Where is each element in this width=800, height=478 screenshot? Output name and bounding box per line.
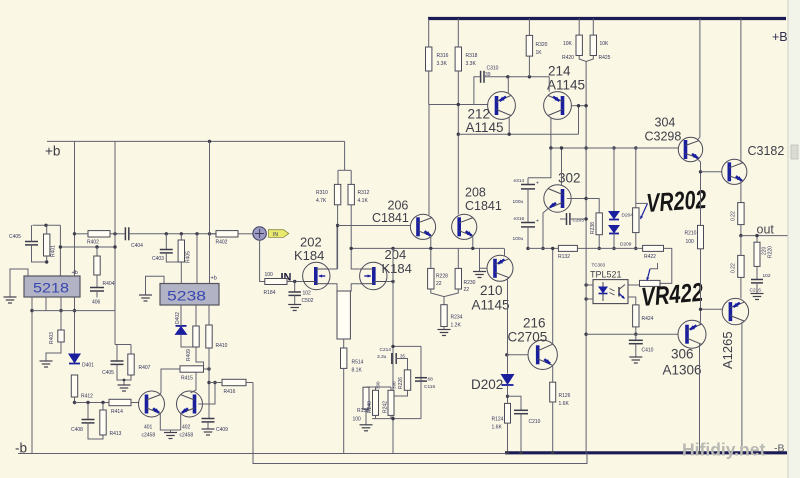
svg-text:R228: R228	[436, 274, 448, 280]
wire R422 to VR422	[660, 248, 672, 283]
svg-text:R403: R403	[49, 332, 55, 344]
svg-text:TC303: TC303	[592, 263, 606, 268]
wire R238 top	[586, 199, 599, 213]
svg-text:R242: R242	[383, 401, 389, 413]
svg-text:VR202: VR202	[645, 184, 707, 218]
wire opto pin1	[586, 284, 593, 286]
node pin4 bus	[73, 309, 76, 312]
svg-text:304: 304	[655, 116, 676, 130]
node x115 top line	[113, 232, 116, 235]
resistor R414	[109, 399, 131, 405]
wire C210 branch	[508, 396, 522, 410]
svg-text:R220: R220	[768, 246, 774, 258]
svg-text:R210: R210	[685, 231, 697, 237]
node 306 rail	[698, 451, 701, 454]
node 204 drain tap	[350, 247, 353, 250]
resistor R0.22b	[738, 255, 744, 277]
ground R234	[438, 330, 451, 336]
wire vr202 drop	[635, 148, 637, 208]
svg-text:R124: R124	[492, 417, 504, 423]
wire 302 base	[567, 198, 586, 200]
svg-text:C116: C116	[424, 384, 435, 390]
svg-text:C3298: C3298	[645, 130, 682, 144]
resistor R420	[576, 35, 582, 55]
wire R320 bottom	[528, 56, 530, 77]
resistor R405	[178, 240, 184, 262]
resistor R514	[341, 348, 347, 368]
node pin3 bus	[59, 309, 62, 312]
node A1265 rail	[740, 451, 743, 454]
potentiometer VR422 wiper	[647, 269, 650, 281]
resistor R316	[426, 47, 432, 71]
wire C502 top lead	[294, 282, 296, 293]
connector IN flag	[269, 230, 289, 238]
wire R240 top lead	[375, 387, 377, 390]
resistor R226	[404, 370, 410, 390]
wire R402 to C404	[110, 233, 125, 235]
wire out to 0.22b	[740, 236, 742, 256]
wire R420 top	[578, 19, 580, 36]
wire R220 to C216	[756, 266, 758, 279]
node bias y148	[584, 146, 587, 149]
svg-text:R238: R238	[590, 222, 596, 234]
wire C203 left lead	[560, 218, 567, 220]
wire bias line y148	[551, 147, 677, 149]
wire 210 emitter chain	[507, 279, 509, 374]
node vr202 bottom	[634, 247, 637, 250]
wire R514 to -b	[343, 368, 345, 453]
wire 212 base line	[429, 104, 488, 106]
wire gnd stub C415	[123, 380, 125, 385]
resistor R310	[334, 184, 340, 204]
svg-text:100u: 100u	[513, 236, 524, 242]
resistor R412	[71, 375, 77, 397]
wire opto pin2	[586, 298, 593, 300]
wire R410 top lead	[208, 305, 210, 325]
wire 208 emitter down	[472, 236, 474, 249]
capacitor C403	[160, 250, 173, 253]
capacitor C404	[125, 227, 128, 240]
diode D402 symbol	[175, 326, 188, 335]
wire 5238 ground branch	[146, 276, 165, 295]
wire R228/R230 merge	[431, 289, 459, 297]
capacitor C502	[288, 292, 301, 295]
wire R124 to -B	[507, 423, 509, 453]
wire 304 base line	[586, 147, 679, 149]
wire line y248 right	[577, 247, 642, 249]
node 214 base tap	[584, 104, 587, 107]
wire net box right	[420, 346, 422, 418]
wire R138 to ground	[365, 409, 367, 425]
svg-text:10K: 10K	[600, 41, 610, 47]
svg-text:R410: R410	[216, 343, 228, 349]
svg-text:C2705: C2705	[508, 330, 548, 345]
svg-text:C405: C405	[102, 370, 114, 376]
resistor R514a (tail, tall)	[337, 291, 350, 339]
wire 210 base gnd	[480, 268, 488, 271]
capacitor e316 (electrolytic)	[521, 223, 535, 227]
wire R409 bottom dogleg	[196, 347, 204, 366]
wire Q202 source down	[330, 284, 337, 291]
node R424/306 base	[634, 333, 637, 336]
transistor Q307 A1265	[722, 298, 748, 324]
resistor R425	[590, 35, 596, 55]
wire +b drop to R402	[74, 141, 76, 276]
wire 302 collector up	[561, 148, 563, 186]
wire +b drop x115	[114, 141, 116, 344]
node opto pin2	[584, 297, 587, 300]
svg-text:C203: C203	[573, 218, 585, 224]
ground near 5218	[4, 297, 17, 303]
wire tail to R514	[343, 339, 345, 348]
node Q402 base tap	[213, 381, 216, 384]
resistor R415	[180, 366, 204, 372]
wire R240 bottom lead	[375, 415, 377, 418]
wire R407 top lead	[130, 345, 132, 355]
wire +B rail (top)	[428, 17, 786, 20]
ground 210 base	[473, 272, 486, 278]
wire R312 bottom long	[350, 205, 352, 249]
wire C410 top	[635, 334, 637, 340]
wire Q204 gate tap	[387, 281, 393, 283]
ground near 5238	[139, 295, 152, 301]
svg-text:TPL521: TPL521	[590, 270, 622, 280]
wire Q402 collector	[191, 373, 197, 394]
resistor R242	[388, 390, 394, 415]
svg-text:R240: R240	[367, 401, 373, 413]
transistor Q402	[177, 391, 203, 417]
node 216 base tap	[505, 353, 508, 356]
svg-text:R413: R413	[110, 431, 122, 437]
svg-text:R415: R415	[181, 376, 193, 382]
node R320 bottom	[528, 75, 531, 78]
wire diode chain top	[613, 148, 615, 212]
wire R414 to Q401 base	[131, 402, 139, 404]
wire 5218 pin4 drop	[74, 297, 76, 354]
svg-text:C404: C404	[131, 243, 143, 249]
svg-text:R320: R320	[536, 42, 548, 48]
wire C116 bottom lead	[420, 381, 422, 419]
wire A1265 base line	[701, 308, 723, 310]
svg-text:R312: R312	[358, 190, 370, 196]
wire D402 top lead	[180, 305, 182, 326]
svg-text:3.3u: 3.3u	[377, 354, 387, 360]
svg-text:R409: R409	[186, 349, 192, 361]
transistor Q302	[544, 185, 571, 212]
resistor R404	[94, 256, 100, 275]
wire 5218 pin3 drop	[60, 297, 62, 330]
wire Q202 drain up	[330, 226, 337, 270]
wire R226 bottom	[391, 390, 408, 396]
svg-text:R401: R401	[51, 245, 57, 257]
wire signal line y248	[351, 247, 504, 249]
diode D202 symbol	[501, 374, 515, 385]
svg-text:R184: R184	[264, 290, 276, 296]
wire R424 bottom	[635, 327, 637, 334]
svg-text:R412: R412	[81, 394, 93, 400]
node net box x393 top	[391, 345, 394, 348]
wire C310 branch	[474, 77, 481, 105]
resistor R238	[596, 213, 602, 235]
svg-text:0.22: 0.22	[731, 263, 737, 273]
node 302 emitter	[541, 247, 544, 250]
node A1265 base tap	[699, 308, 702, 311]
wire D202 to R124	[507, 385, 509, 403]
svg-text:c2458: c2458	[142, 433, 156, 439]
transistor Q216 C2705	[528, 340, 557, 369]
wire fb drop x393	[392, 248, 394, 418]
wire e314 feed	[528, 148, 551, 178]
svg-text:+: +	[536, 219, 539, 225]
svg-text:C3182: C3182	[748, 144, 785, 158]
svg-text:100: 100	[265, 272, 274, 278]
svg-text:D401: D401	[82, 363, 94, 369]
wire R410/R416 drop	[208, 348, 210, 419]
svg-text:A1265: A1265	[720, 331, 735, 369]
wire Q401 collector	[160, 369, 180, 395]
wire C214 to R226	[396, 359, 407, 370]
svg-text:C409: C409	[216, 427, 228, 433]
potentiometer VR422	[640, 280, 661, 286]
wire R310 top lead	[337, 170, 339, 184]
wire y134 line	[458, 133, 578, 135]
resistor R422	[643, 245, 664, 251]
wire top bias line y76	[484, 76, 549, 78]
wire C408 top lead	[87, 403, 89, 420]
resistor R220	[754, 242, 760, 266]
node pin x197	[195, 232, 198, 235]
capacitor C408	[82, 420, 95, 423]
diode D209 symbol	[608, 225, 620, 234]
node d-chain top	[612, 146, 615, 149]
ground C409	[202, 429, 215, 435]
svg-text:C408: C408	[71, 427, 83, 433]
resistor R416	[222, 379, 246, 385]
svg-text:R425: R425	[599, 55, 611, 61]
svg-text:K184: K184	[382, 261, 412, 276]
svg-text:D402: D402	[175, 312, 181, 324]
wire C403 bottom lead	[166, 253, 181, 262]
wire 214 collector loop	[578, 106, 580, 135]
svg-text:5218: 5218	[33, 281, 69, 296]
svg-text:204: 204	[385, 247, 407, 262]
svg-text:5238: 5238	[167, 288, 206, 304]
node R416 left	[207, 381, 210, 384]
capacitor C203	[567, 213, 570, 225]
node 306 base line tap	[584, 333, 587, 336]
optocoupler LED	[598, 282, 608, 301]
svg-text:D202: D202	[471, 377, 503, 392]
svg-text:out: out	[757, 223, 775, 237]
wire emitter gnd stub	[170, 430, 172, 433]
svg-text:R226: R226	[398, 377, 404, 389]
svg-text:402: 402	[182, 425, 191, 431]
svg-text:K184: K184	[294, 248, 324, 263]
node C403 top	[165, 232, 168, 235]
ground C216	[751, 294, 764, 300]
wire R234 to ground	[443, 327, 445, 330]
wire R413 top lead	[102, 403, 104, 411]
wire C406 bottom stub	[96, 291, 98, 298]
svg-text:1.2K: 1.2K	[451, 323, 462, 329]
wire Q204 source down	[337, 284, 360, 291]
wire vr202 bottom	[635, 233, 637, 249]
svg-text:+b: +b	[72, 270, 78, 276]
wire line y248 mid	[528, 247, 558, 249]
wire ground branch 5218	[10, 269, 28, 297]
wire base row y402	[75, 402, 110, 404]
wire Q401 emitter	[160, 413, 180, 430]
node e-chain top	[549, 146, 552, 149]
wire R401 top lead	[46, 225, 48, 234]
wire R310 bottom long	[337, 205, 339, 269]
wire +b to 5238	[209, 141, 211, 283]
svg-text:R402: R402	[216, 240, 228, 246]
wire C403 top lead	[165, 234, 167, 249]
resistor R402 (input)	[216, 231, 238, 237]
svg-text:406: 406	[92, 300, 101, 306]
wire -B rail (bottom)	[505, 451, 787, 454]
wire C405/R401 top link	[33, 224, 61, 226]
node 212 collector top	[506, 75, 509, 78]
svg-text:C403: C403	[152, 256, 164, 262]
node R126 rail	[551, 451, 554, 454]
wire bias drop x586	[585, 62, 587, 249]
svg-text:22: 22	[436, 281, 442, 287]
svg-text:22: 22	[464, 287, 470, 293]
node C203 tap	[584, 217, 587, 220]
ground R403	[40, 361, 53, 367]
optocoupler phototransistor	[610, 285, 626, 299]
node C210 rail	[519, 451, 522, 454]
svg-text:A1145: A1145	[547, 78, 585, 93]
wire node to 5218 pin4	[59, 225, 61, 276]
wire -b rail	[18, 453, 506, 455]
transistor Q306 A1306	[678, 320, 706, 348]
wire +b corner down	[344, 141, 346, 170]
svg-text:-B: -B	[774, 443, 785, 455]
capacitor C406 (electrolytic)	[90, 288, 104, 292]
svg-text:+b: +b	[211, 276, 217, 282]
resistor R410	[206, 325, 212, 348]
potentiometer VR202 wiper	[640, 203, 647, 219]
svg-text:216: 216	[523, 316, 546, 331]
capacitor C210	[514, 410, 528, 413]
capacitor e314 (electrolytic)	[521, 185, 535, 189]
wire 216 base	[507, 354, 528, 356]
wire R402b to IN node	[238, 233, 253, 235]
wire R184 to gate	[287, 281, 303, 283]
transistor Q305 C3182	[722, 159, 747, 184]
node R124 rail	[506, 451, 509, 454]
svg-text:306: 306	[671, 347, 694, 362]
wire bottom return bus	[253, 383, 587, 464]
svg-text:1.6K: 1.6K	[559, 401, 570, 407]
wire pin drop x197	[196, 234, 198, 284]
wire 0.22b to A1265	[740, 277, 742, 298]
svg-text:+b: +b	[45, 144, 60, 159]
svg-text:D204: D204	[622, 213, 634, 219]
wire R318 bottom through	[457, 71, 459, 215]
wire R404 top lead	[96, 247, 98, 256]
svg-text:IN: IN	[273, 232, 278, 238]
wire R415 right lead	[204, 368, 210, 370]
diode D204 symbol	[608, 211, 620, 220]
svg-text:10K: 10K	[563, 41, 573, 47]
wire R405 top lead	[180, 234, 182, 240]
svg-text:8.1K: 8.1K	[352, 368, 363, 374]
node out	[739, 234, 742, 237]
node 206 base line	[336, 224, 339, 227]
node +b/5238 drop	[208, 140, 211, 143]
node D202/C210	[506, 395, 509, 398]
wire R405 bottom to 5238	[180, 262, 182, 284]
svg-text:+B: +B	[772, 30, 788, 44]
svg-text:R230: R230	[464, 280, 476, 286]
wire 216 emitter down	[552, 366, 554, 382]
wire out line	[741, 235, 793, 237]
wire C405 bottom lead	[32, 245, 47, 262]
wire x586 to -B	[585, 248, 587, 452]
wire R316 top	[428, 19, 430, 48]
wire pin bus y310	[32, 310, 115, 312]
resistor R126	[550, 382, 556, 402]
node 212 base/R318	[457, 103, 460, 106]
resistor R0.22a	[738, 203, 744, 225]
wire R320 top	[528, 19, 530, 36]
svg-text:c2458: c2458	[180, 433, 194, 439]
svg-text:C310: C310	[487, 66, 499, 72]
wire R416 right lead	[246, 382, 253, 384]
wire R316 bottom to 212 base	[428, 71, 430, 105]
wire 212 collector	[507, 77, 509, 94]
capacitor C405 plates	[25, 242, 38, 245]
transistor Q401	[139, 391, 165, 417]
wire mid supply line y247	[60, 246, 115, 248]
wire R403 to ground	[46, 342, 61, 361]
svg-text:R414: R414	[111, 409, 123, 415]
wire C409 bottom	[207, 422, 209, 429]
resistor R230	[455, 268, 461, 289]
svg-text:A1145: A1145	[466, 120, 504, 135]
potentiometer VR202	[633, 208, 639, 233]
svg-text:R318: R318	[466, 53, 478, 59]
wire Q204 drain up	[351, 248, 360, 269]
wire 206 emitter down	[430, 236, 432, 249]
wire R242 bottom lead	[390, 415, 392, 418]
svg-text:C1841: C1841	[372, 211, 409, 225]
wire R138 top lead	[365, 386, 367, 388]
wire C3182 emitter down	[740, 181, 742, 202]
svg-text:C410: C410	[642, 348, 654, 354]
svg-text:R126: R126	[559, 393, 571, 399]
wire 212 emitter down	[508, 118, 510, 135]
resistor R407	[128, 354, 134, 375]
wire C404 to 5238 area	[129, 233, 216, 235]
node R401 top	[44, 224, 47, 227]
resistor R402	[88, 231, 110, 237]
wire 214 base	[571, 105, 586, 107]
resistor R132	[558, 245, 577, 251]
node 208 emitter	[471, 247, 474, 250]
wire 206 collector up	[428, 105, 430, 215]
node net box x393 bottom	[391, 417, 394, 420]
node R238 bottom	[598, 247, 601, 250]
wire C415 bottom lead	[117, 364, 131, 380]
resistor R210	[698, 225, 704, 248]
svg-text:102: 102	[763, 273, 771, 279]
svg-text:R424: R424	[642, 316, 654, 322]
